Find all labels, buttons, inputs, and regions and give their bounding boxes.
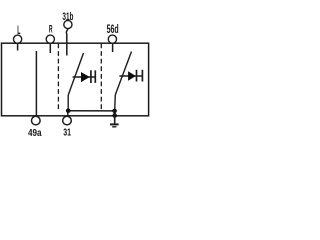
terminal 31 circle (63, 116, 72, 125)
terminal 31b circle (64, 20, 72, 28)
junction node C on housing edge (112, 113, 117, 118)
ground stem (114, 116, 116, 124)
terminal R circle (46, 35, 54, 43)
switch housing box (2, 43, 149, 116)
diode D2 anode lead (119, 75, 142, 77)
svg-text:L: L (17, 24, 20, 37)
terminal L circle (14, 35, 22, 43)
svg-text:31: 31 (63, 126, 71, 138)
svg-text:56d: 56d (107, 23, 119, 36)
dashed guide line left (57, 44, 59, 111)
terminal 49a long contact stem (35, 51, 37, 116)
terminal 56d stem (112, 43, 114, 52)
ground bar 2 (112, 126, 116, 128)
dashed guide line right (100, 44, 102, 112)
diode D2 cathode bar (136, 70, 138, 82)
diode D1 anode lead (73, 76, 96, 78)
svg-text:R: R (49, 22, 53, 35)
svg-text:31b: 31b (62, 10, 73, 22)
diode D1 second bar (94, 70, 96, 83)
terminal 56d circle (108, 35, 116, 43)
junction node A (66, 108, 71, 113)
terminal 31 stem (67, 111, 69, 117)
ground bar 1 (110, 123, 119, 125)
svg-text:49a: 49a (28, 127, 42, 138)
junction node B (112, 109, 117, 114)
switch lever right (115, 52, 132, 111)
diode D2 second bar (141, 70, 143, 82)
diode D2 triangle (128, 71, 136, 81)
diode D1 triangle (81, 72, 90, 82)
terminal 49a circle (32, 116, 41, 125)
terminal 31b stem (curved lead into box) (66, 29, 68, 56)
terminal R stem (49, 43, 51, 53)
wire common bottom (68, 110, 114, 112)
terminal L stem (17, 43, 19, 51)
diode D1 cathode bar (90, 70, 92, 83)
switch lever left (68, 53, 83, 111)
wire node B to housing edge (113, 111, 115, 116)
